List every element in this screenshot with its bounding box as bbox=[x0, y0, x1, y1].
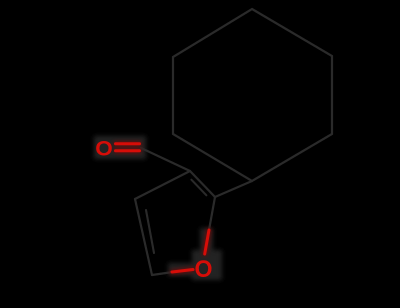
svg-text:O: O bbox=[95, 137, 113, 161]
svg-text:O: O bbox=[195, 256, 213, 283]
